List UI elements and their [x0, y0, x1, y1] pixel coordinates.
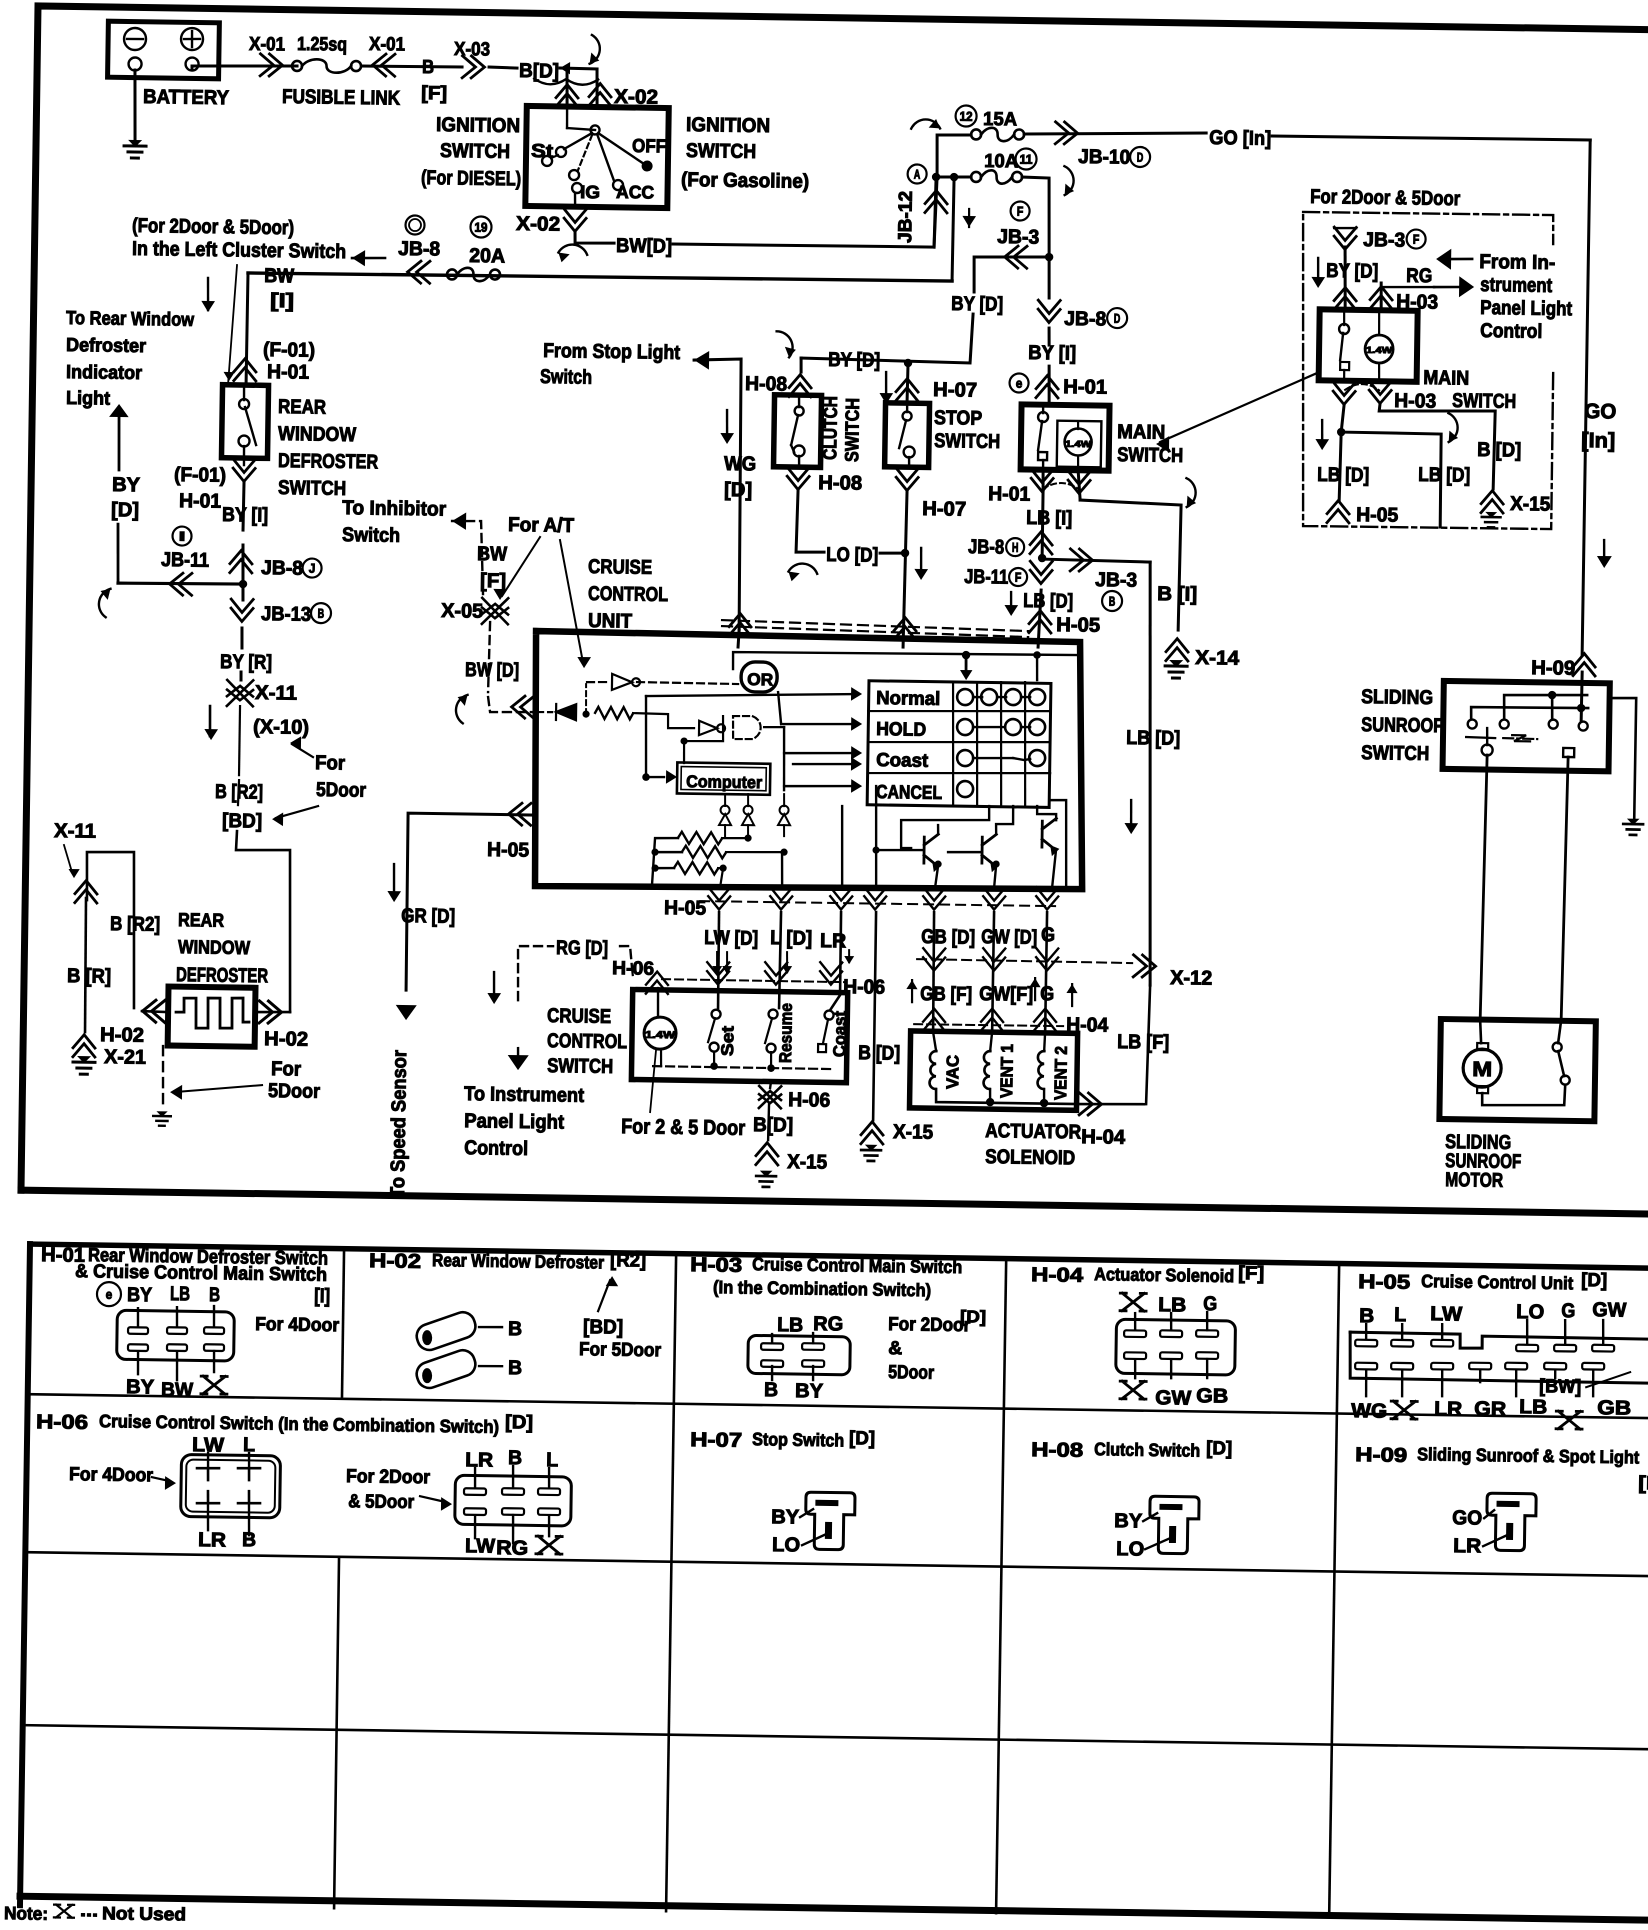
solenoid coil VENT 2 [1037, 1051, 1044, 1089]
wire stop switch down into cruise unit [903, 490, 907, 647]
svg-text:To Rear Window: To Rear Window [66, 308, 194, 331]
wire GO[In] to right edge corner [1272, 135, 1590, 140]
chevrons on dashed bus [729, 613, 751, 636]
svg-text:ACTUATOR: ACTUATOR [985, 1120, 1082, 1143]
pin chevrons on cruise switch [707, 962, 729, 985]
wire down from JB-8D junction [1049, 257, 1050, 298]
sunroof switch wire entry [1581, 672, 1582, 721]
arrow BD to header [598, 1280, 610, 1311]
svg-text:G: G [1041, 924, 1055, 946]
wire ignition switch to BW[D] [575, 232, 614, 244]
H-03 connector body [748, 1335, 851, 1374]
svg-text:For 5Door: For 5Door [579, 1339, 662, 1361]
H-03 connector leads [771, 1334, 774, 1343]
battery B1 [108, 21, 220, 79]
svg-text:G: G [1561, 1300, 1575, 1322]
svg-text:H-06: H-06 [843, 976, 885, 999]
svg-text:GR [D]: GR [D] [401, 905, 455, 928]
bulb 1.4W cruise switch [644, 1017, 676, 1049]
svg-text:[D]: [D] [505, 1412, 533, 1433]
wire fuse 10A to corner down [1021, 177, 1050, 257]
svg-text:B [R2]: B [R2] [110, 913, 160, 936]
table outer border top [30, 1244, 1648, 1268]
svg-text:[R2]: [R2] [610, 1250, 646, 1272]
dashed wire into cruise unit left [488, 697, 536, 713]
svg-text:B [D]: B [D] [858, 1042, 900, 1065]
svg-text:For 4Door: For 4Door [69, 1464, 154, 1486]
wire battery negative to ground [134, 70, 136, 140]
svg-text:SWITCH: SWITCH [934, 430, 1000, 453]
svg-text:B[D]: B[D] [519, 60, 559, 83]
svg-text:DEFROSTER: DEFROSTER [278, 450, 379, 473]
arrow left to cluster switch [352, 250, 365, 266]
H-05 connector leads [1365, 1324, 1368, 1339]
table row line 2 [26, 1552, 1648, 1576]
connector X-11 star [227, 680, 253, 706]
svg-text:SLIDING: SLIDING [1361, 686, 1433, 709]
table column divider 1 lower [334, 1557, 339, 1908]
arrow from X-11 label [64, 845, 73, 872]
svg-text:To Instrument: To Instrument [464, 1083, 585, 1107]
svg-text:GW[F]: GW[F] [979, 983, 1033, 1006]
svg-text:Clutch Switch: Clutch Switch [1094, 1439, 1200, 1461]
svg-text:H-01: H-01 [267, 361, 309, 384]
svg-text:GB: GB [1597, 1397, 1631, 1419]
table outer border left [20, 1244, 30, 1905]
GO[In] vertical wire at right [1582, 140, 1590, 655]
svg-text:LW: LW [1430, 1303, 1462, 1325]
connector chevron defroster right H-02 [259, 1001, 282, 1023]
table column divider 3 [996, 1262, 1006, 1913]
svg-text:BY [D]: BY [D] [951, 293, 1003, 316]
H-05 connector slots [1355, 1340, 1377, 1347]
sunroof switch second bus [1471, 706, 1588, 721]
wire to ground X-15 [767, 1104, 770, 1140]
down arrow left of wire [206, 278, 209, 310]
circled F [1010, 201, 1029, 220]
circled e H-01 [97, 1282, 121, 1306]
svg-text:GW [D]: GW [D] [981, 926, 1037, 949]
wire fuse 10A left leg [937, 175, 971, 179]
svg-text:G: G [1040, 983, 1054, 1005]
circled 19 [470, 216, 491, 237]
svg-text:JB-11: JB-11 [161, 549, 209, 572]
wire clutch to LO[D] [796, 490, 825, 552]
circled A [907, 164, 926, 183]
svg-text:[D]: [D] [1581, 1270, 1607, 1291]
connector chevron JB-8 J up [230, 550, 252, 573]
svg-text:For A/T: For A/T [508, 514, 574, 537]
svg-text:B: B [508, 1318, 522, 1340]
not used X H-01 [201, 1376, 227, 1394]
main switch 2door lever [1339, 324, 1349, 334]
svg-text:SWITCH: SWITCH [686, 140, 756, 163]
svg-text:H-01: H-01 [179, 490, 221, 513]
small down arrow left of RG dash [492, 972, 495, 1000]
svg-text:LR: LR [198, 1529, 227, 1551]
svg-text:L: L [1394, 1304, 1406, 1326]
wire LB branch right [1340, 432, 1442, 527]
svg-text:JB-11: JB-11 [964, 566, 1008, 589]
wire LB[D] long vertical [1144, 562, 1156, 985]
wire LB[F] vertical [1146, 985, 1150, 1104]
motor M [1463, 1049, 1502, 1088]
svg-text:Indicator: Indicator [66, 362, 143, 384]
transistor outputs to pins [935, 866, 938, 887]
svg-text:F: F [1015, 570, 1022, 585]
wire junction A down to BW[D] line [934, 177, 937, 247]
svg-text:Panel Light: Panel Light [1480, 297, 1573, 320]
svg-text:H-05: H-05 [1356, 504, 1398, 527]
wire BW line up to 10A line [952, 178, 954, 281]
svg-text:JB-8: JB-8 [968, 536, 1004, 559]
svg-text:20A: 20A [469, 245, 505, 268]
svg-text:For 2Door: For 2Door [888, 1314, 971, 1336]
svg-text:JB-12: JB-12 [895, 191, 917, 243]
svg-text:(F-01): (F-01) [174, 464, 226, 487]
svg-text:X-15: X-15 [1510, 493, 1550, 516]
wire right leg to B[D] X-15 [1378, 403, 1495, 489]
svg-text:[D]: [D] [724, 479, 752, 501]
svg-text:J: J [309, 561, 316, 576]
svg-text:BY: BY [126, 1376, 155, 1398]
svg-text:LW [D]: LW [D] [704, 927, 758, 950]
arrow To Speed Sensor [396, 1005, 417, 1020]
dashed line through pin chevrons [662, 979, 845, 982]
leader line from cluster label to defroster switch [228, 265, 237, 384]
svg-text:CLUTCH: CLUTCH [820, 396, 842, 460]
svg-text:VAC: VAC [943, 1055, 962, 1089]
svg-text:LB [D]: LB [D] [1317, 464, 1369, 487]
svg-text:X-11: X-11 [255, 682, 297, 705]
wire sunroof switch to motor left [1480, 755, 1487, 1020]
svg-text:B: B [508, 1447, 522, 1469]
connector chevron H-08 bottom [787, 467, 809, 490]
connector chevron JB-3 [1005, 246, 1028, 268]
wire [BD] down to defroster right side [234, 831, 293, 1012]
dashed bus into H-05 [722, 620, 1028, 631]
transistor Q1 [924, 834, 940, 869]
svg-text:[I]: [I] [1638, 1473, 1648, 1494]
circled e [1009, 373, 1028, 392]
H-06 4door pins [197, 1467, 219, 1470]
connector chevron JB-11 [169, 573, 192, 595]
svg-text:& 5Door: & 5Door [348, 1491, 415, 1513]
svg-text:SUNROOF: SUNROOF [1361, 714, 1443, 737]
svg-text:[F]: [F] [480, 570, 506, 592]
dashed wire inhibitor to X-05 [451, 521, 484, 594]
svg-text:For 4Door: For 4Door [255, 1314, 340, 1336]
svg-text:CRUISE: CRUISE [588, 556, 652, 579]
ground X-14 [1165, 660, 1187, 678]
svg-text:SWITCH: SWITCH [1361, 742, 1429, 765]
arrow For A/T to X-05 [502, 536, 540, 596]
svg-text:SWITCH: SWITCH [1452, 390, 1516, 413]
svg-text:SWITCH: SWITCH [842, 398, 864, 462]
svg-text:LB [D]: LB [D] [1418, 464, 1470, 487]
svg-text:H-02: H-02 [264, 1028, 308, 1051]
svg-text:BATTERY: BATTERY [143, 86, 230, 109]
resistor right connections [722, 836, 748, 839]
svg-text:LO: LO [1516, 1301, 1544, 1323]
svg-text:IGNITION: IGNITION [436, 114, 520, 137]
svg-text:SOLENOID: SOLENOID [985, 1146, 1075, 1169]
connector chevron JB-10 [1055, 122, 1078, 144]
wire JB-11 horizontal [118, 582, 243, 585]
svg-text:MAIN: MAIN [1423, 367, 1469, 390]
arrow To Instrument Panel [508, 1055, 529, 1070]
svg-text:RG: RG [813, 1313, 843, 1335]
table row line 3 [23, 1725, 1648, 1749]
connector chevron defroster left H-02 [142, 1000, 165, 1022]
svg-text:X-21: X-21 [104, 1046, 146, 1069]
svg-text:GR: GR [1474, 1398, 1507, 1420]
svg-text:HOLD: HOLD [876, 719, 926, 741]
svg-text:H-08: H-08 [818, 472, 862, 495]
dashed RG wire into switch [632, 969, 633, 978]
table column divider 2 [666, 1257, 676, 1911]
wire B[R2] label gap [238, 780, 239, 805]
svg-text:VENT 1: VENT 1 [997, 1044, 1017, 1098]
svg-text:B [R]: B [R] [67, 965, 111, 988]
chevron bus to X-12 [923, 948, 945, 971]
schematic border frame [21, 6, 1648, 1214]
svg-text:JB-13: JB-13 [261, 603, 311, 626]
curved arrow right leg [1435, 412, 1465, 444]
wire BY[D] down to clutch/stop line [801, 312, 973, 364]
svg-text:10A: 10A [984, 151, 1019, 173]
down arrow right of LO junction [920, 548, 923, 576]
connector chevron left branch [75, 880, 97, 903]
arrow from stop light [694, 351, 709, 370]
curved arrow up at left end [93, 587, 120, 618]
wire WG into cruise unit [738, 630, 739, 647]
svg-text:IG: IG [580, 182, 600, 202]
sunroof switch pins [1468, 719, 1477, 728]
svg-text:(X-10): (X-10) [253, 716, 309, 739]
H-01 connector leads [136, 1308, 139, 1327]
switch Set [711, 1010, 720, 1019]
rear window defroster element box [168, 986, 256, 1046]
H-04 connector leads [1134, 1313, 1137, 1330]
connector chevron X-12 [1133, 955, 1156, 977]
dashed wire RG[D] [517, 946, 553, 1001]
svg-text:IGNITION: IGNITION [686, 114, 770, 137]
wire B[D] pin down [873, 912, 876, 1120]
ground X-15 mid [861, 1145, 881, 1161]
svg-text:From Stop Light: From Stop Light [543, 340, 681, 364]
svg-text:[I]: [I] [270, 290, 294, 312]
svg-text:BY [I]: BY [I] [1028, 342, 1076, 365]
connector X-02 chevrons below ignition switch [564, 209, 586, 232]
svg-text:GB [D]: GB [D] [921, 926, 975, 949]
svg-text:B: B [422, 57, 434, 78]
switch Resume [768, 1010, 777, 1019]
svg-text:H-04: H-04 [1031, 1264, 1084, 1287]
dash-dot box For 2Door & 5Door [1303, 211, 1554, 244]
svg-text:GB [F]: GB [F] [920, 983, 972, 1006]
svg-text:1.4W: 1.4W [645, 1030, 676, 1041]
unit left entry chevrons [511, 696, 534, 718]
svg-text:CONTROL: CONTROL [547, 1030, 627, 1053]
small diode before AND gate [699, 721, 725, 736]
svg-text:B: B [242, 1529, 256, 1551]
wire BY[R] to X-11 [239, 672, 242, 680]
connector X-05 star [482, 598, 508, 624]
wire battery positive to fusible link [190, 66, 193, 70]
svg-text:Coast: Coast [876, 750, 929, 772]
svg-text:JB-8: JB-8 [398, 238, 440, 261]
fuse 20A [447, 269, 457, 279]
svg-text:H-01: H-01 [1063, 376, 1107, 399]
up arrows actuator [911, 980, 914, 1002]
ground X-21 [73, 1056, 95, 1074]
curved arrow below X-02 [556, 239, 588, 268]
sensor symbols below computer [724, 794, 726, 806]
arrow to [BD] [276, 805, 318, 818]
wire GR[D] from cruise unit left [405, 813, 536, 992]
junction JB [1038, 554, 1047, 563]
svg-text:JB-8: JB-8 [1064, 308, 1106, 331]
svg-text:(For 2Door & 5Door): (For 2Door & 5Door) [132, 215, 294, 239]
svg-text:(In the Combination Switch): (In the Combination Switch) [713, 1277, 931, 1300]
svg-text:5Door: 5Door [888, 1362, 935, 1384]
H-03 connector slots [761, 1343, 783, 1350]
svg-text:LO [D]: LO [D] [826, 544, 878, 567]
unit interior top wire [733, 650, 1079, 674]
connector chevron JB-3 B [1070, 549, 1093, 571]
wire indicator branch down to JB-11 line [117, 524, 119, 583]
sunroof switch top bus [1504, 694, 1587, 720]
svg-text:LR: LR [465, 1449, 494, 1471]
connector chevron H-05 left entry [508, 803, 531, 825]
svg-text:BW [D]: BW [D] [465, 659, 519, 682]
computer box [677, 762, 770, 794]
svg-text:REAR: REAR [178, 910, 225, 932]
wire JB-3 branch left and down [974, 256, 1050, 293]
svg-text:X-15: X-15 [893, 1121, 933, 1144]
connector X-02 chevrons into ignition switch [556, 84, 578, 107]
dashed wire X-05 down [488, 622, 490, 692]
svg-text:D: D [1114, 311, 1121, 326]
svg-text:&: & [888, 1338, 903, 1359]
svg-text:JB-10: JB-10 [1078, 146, 1130, 169]
unit bottom pin chevrons [708, 887, 730, 910]
solenoid pin wires [933, 1032, 937, 1051]
svg-text:X-05: X-05 [441, 600, 483, 623]
wires pins down to cruise switch [718, 912, 720, 1008]
svg-text:LB [D]: LB [D] [1023, 590, 1073, 613]
curved arrow clutch top [768, 329, 800, 358]
svg-text:SWITCH: SWITCH [1117, 444, 1183, 467]
wire B pin down from switch [770, 1081, 771, 1088]
ground sunroof [1623, 819, 1643, 835]
svg-text:H-08: H-08 [1031, 1439, 1083, 1462]
svg-text:5Door: 5Door [268, 1080, 321, 1103]
wire left leg down through JB-8H [1041, 490, 1045, 558]
H-06 4door leads [207, 1453, 210, 1466]
svg-text:MAIN: MAIN [1117, 421, 1165, 444]
arrow to inhibitor [452, 512, 466, 530]
relay mode table [867, 681, 1051, 808]
connector chevron X-03 [462, 56, 485, 78]
connector chevron H-07 top [896, 378, 918, 401]
svg-text:H-02: H-02 [369, 1250, 421, 1273]
svg-text:For: For [315, 752, 346, 774]
svg-text:H: H [1012, 540, 1019, 555]
H-01 connector slots [128, 1327, 148, 1334]
svg-text:Switch: Switch [540, 366, 592, 389]
svg-text:BY: BY [1114, 1510, 1143, 1532]
svg-text:LR: LR [1453, 1535, 1482, 1557]
transistor Q2 [982, 834, 998, 869]
connector chevron H-05 2door [1327, 500, 1349, 523]
sunroof switch dash-dot lever [1466, 737, 1495, 738]
fuse 15A [971, 129, 981, 139]
svg-text:LR: LR [820, 930, 847, 952]
connector chevron X-15 2door [1481, 490, 1503, 513]
connector chevron B[D] ground [861, 1122, 883, 1145]
H-04 labels top [1120, 1293, 1146, 1311]
svg-text:H-01: H-01 [988, 483, 1030, 506]
ground X-15 2door [1482, 512, 1501, 528]
svg-text:LB [F]: LB [F] [1117, 1031, 1169, 1054]
table row line 1 [28, 1394, 1648, 1418]
transistor Q3 [1042, 818, 1058, 853]
svg-text:Stop Switch: Stop Switch [752, 1429, 844, 1450]
svg-text:LO: LO [772, 1534, 800, 1556]
main switch 2door box [1319, 309, 1418, 381]
svg-text:From In-: From In- [1479, 251, 1555, 274]
svg-text:H-03: H-03 [1394, 390, 1436, 413]
connector JB-3 F symbol [1334, 227, 1356, 250]
svg-text:BW: BW [477, 543, 507, 565]
circled 11 [1015, 148, 1036, 169]
resistor R in diode line [595, 707, 633, 720]
main switch 2door bulb [1365, 335, 1393, 363]
svg-text:B [D]: B [D] [1477, 439, 1521, 462]
table column divider 1 upper [342, 1249, 344, 1396]
H-01 connector body [117, 1310, 235, 1361]
relay contacts coast row [957, 750, 973, 766]
solenoid coil VENT 1 [983, 1051, 990, 1089]
svg-text:19: 19 [474, 220, 487, 235]
H-06 connector 2door body [455, 1475, 572, 1526]
sunroof switch lower pins [1482, 744, 1493, 755]
wire LB[D] into cruise unit [1038, 590, 1041, 647]
wire corner down to defroster switch [246, 273, 248, 384]
dashed wire For 5Door ground [162, 1046, 164, 1108]
connector chevrons H-01 below main switch [1031, 469, 1053, 492]
wire right branch to B[I] [1078, 500, 1181, 630]
svg-text:LB [D]: LB [D] [1126, 727, 1180, 750]
fuse 10A [971, 172, 981, 182]
OR gate bubble [741, 662, 777, 693]
svg-text:H-09: H-09 [1531, 657, 1575, 680]
svg-text:H-06: H-06 [788, 1089, 830, 1112]
connector chevron X-15 switch [756, 1142, 778, 1165]
wire X-11 down to B[R2] [239, 706, 240, 775]
rear window defroster switch box [221, 385, 268, 459]
svg-text:BY [I]: BY [I] [222, 504, 268, 527]
wires below main switch [1041, 470, 1045, 490]
svg-text:(F-01): (F-01) [263, 339, 315, 362]
svg-text:GO: GO [1452, 1507, 1482, 1529]
sliding sunroof motor box [1439, 1019, 1595, 1121]
wire fuse 15A left leg [936, 134, 971, 177]
wire down to BY[R] [240, 628, 244, 648]
wire fusible link to X-03 [362, 66, 462, 68]
